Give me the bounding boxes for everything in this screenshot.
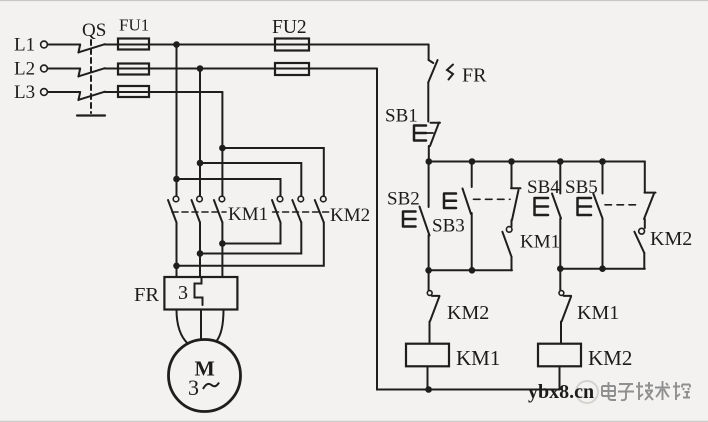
svg-text:3: 3 bbox=[178, 282, 188, 304]
svg-text:FU1: FU1 bbox=[119, 16, 149, 35]
svg-text:KM2: KM2 bbox=[588, 346, 632, 370]
svg-text:KM2: KM2 bbox=[650, 228, 692, 250]
svg-text:KM1: KM1 bbox=[456, 346, 500, 370]
svg-text:L3: L3 bbox=[14, 82, 35, 103]
svg-text:QS: QS bbox=[82, 20, 106, 41]
svg-text:3: 3 bbox=[188, 375, 199, 400]
svg-text:KM1: KM1 bbox=[577, 302, 619, 324]
svg-text:SB2: SB2 bbox=[387, 189, 420, 210]
svg-text:L1: L1 bbox=[14, 35, 35, 56]
svg-text:SB4: SB4 bbox=[527, 177, 560, 198]
svg-text:ybx8.cn: ybx8.cn bbox=[528, 381, 594, 403]
svg-text:FR: FR bbox=[134, 284, 159, 306]
svg-text:SB3: SB3 bbox=[432, 216, 465, 237]
svg-text:KM1: KM1 bbox=[520, 232, 560, 253]
svg-text:SB5: SB5 bbox=[565, 177, 598, 198]
svg-text:FU2: FU2 bbox=[272, 17, 307, 38]
svg-text:L2: L2 bbox=[14, 59, 35, 80]
svg-text:KM2: KM2 bbox=[330, 205, 370, 226]
svg-text:KM1: KM1 bbox=[228, 204, 268, 225]
svg-text:FR: FR bbox=[462, 65, 487, 87]
svg-text:KM2: KM2 bbox=[447, 302, 489, 324]
svg-text:SB1: SB1 bbox=[385, 106, 418, 127]
